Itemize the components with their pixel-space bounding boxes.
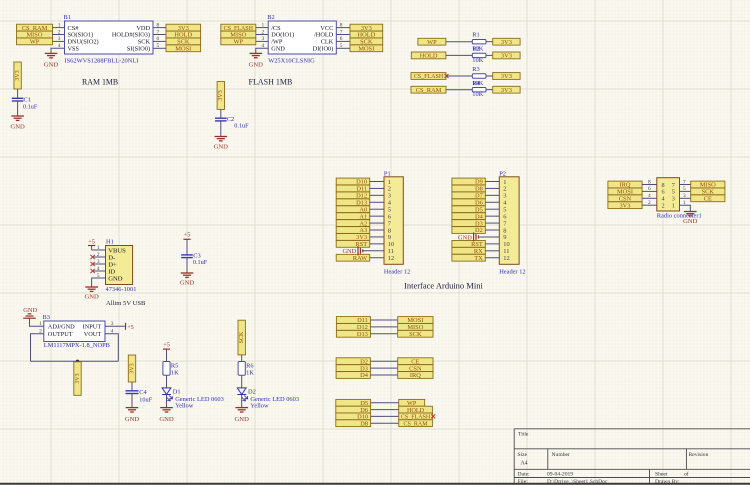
- port D9: [452, 178, 485, 185]
- wire: [363, 250, 384, 252]
- wire: [371, 409, 399, 411]
- wire: [241, 395, 243, 408]
- wire: [485, 194, 499, 196]
- wire: [370, 243, 384, 245]
- wire: [166, 375, 168, 388]
- port CSN: [608, 195, 642, 202]
- no-ERC marker: [431, 414, 435, 418]
- svg-text:GND: GND: [180, 280, 195, 287]
- wire: [485, 229, 499, 231]
- wire: [131, 394, 133, 408]
- port MOSI: [166, 45, 201, 52]
- svg-text:R5: R5: [171, 362, 178, 369]
- svg-text:B1: B1: [64, 14, 71, 21]
- svg-text:C2: C2: [227, 116, 234, 123]
- port D10: [336, 178, 370, 185]
- svg-text:4: 4: [58, 43, 61, 49]
- port MISO: [17, 31, 53, 38]
- wire: [446, 89, 472, 91]
- port D5: [452, 206, 485, 213]
- wire: [256, 34, 268, 36]
- wire: [642, 184, 657, 186]
- wire: [51, 48, 65, 53]
- svg-text:D4: D4: [360, 372, 369, 379]
- wire: [485, 222, 499, 224]
- ground: [684, 211, 697, 213]
- svg-text:CS_FLASH: CS_FLASH: [414, 74, 444, 80]
- port CS_FLASH: [411, 73, 446, 80]
- svg-text:GND: GND: [458, 234, 472, 241]
- port MOSI: [608, 188, 642, 195]
- svg-text:3: 3: [58, 36, 61, 42]
- power +5: [163, 348, 170, 350]
- connector Radio connecter1: [648, 178, 702, 220]
- svg-text:LM1117MPX-1.8_NOPB: LM1117MPX-1.8_NOPB: [44, 342, 110, 349]
- no-connect pin 2: [94, 256, 106, 258]
- wire: [370, 333, 397, 335]
- capacitor C4: [126, 389, 153, 403]
- port HOLD: [411, 52, 446, 59]
- title block: [514, 429, 750, 485]
- wire: [256, 40, 268, 42]
- port MOSI: [398, 317, 433, 324]
- ground: [215, 136, 228, 138]
- wire: [370, 194, 384, 196]
- wire: [256, 27, 268, 29]
- wire: [370, 187, 384, 189]
- wire: [105, 334, 118, 362]
- svg-text:12: 12: [388, 255, 395, 262]
- svg-text:HOLD: HOLD: [420, 53, 438, 60]
- svg-text:GND: GND: [84, 293, 99, 300]
- wire: [220, 109, 222, 118]
- port SCK: [166, 38, 201, 45]
- wire: [485, 187, 499, 189]
- port CE: [398, 358, 433, 365]
- wire: [446, 54, 472, 56]
- power port 3V3: [128, 355, 135, 382]
- wire: [370, 326, 397, 328]
- svg-text:IS62WVS1288FBLL-20NLI: IS62WVS1288FBLL-20NLI: [65, 58, 139, 65]
- resistor R6 1K: [238, 362, 254, 377]
- svg-text:1: 1: [261, 22, 264, 28]
- power port GND: [23, 307, 37, 318]
- power +5: [183, 238, 190, 240]
- svg-text:VOUT: VOUT: [84, 331, 102, 338]
- svg-text:TX: TX: [474, 255, 483, 262]
- svg-text:GND: GND: [683, 218, 698, 225]
- wire: [370, 374, 397, 376]
- svg-text:GND: GND: [159, 416, 174, 423]
- ground: [85, 286, 98, 288]
- svg-text:CS_RAM: CS_RAM: [416, 87, 442, 94]
- connector P2 Header 12: [499, 170, 525, 275]
- svg-text:0.1uF: 0.1uF: [23, 103, 38, 110]
- wire: [485, 250, 499, 252]
- wire: [642, 204, 657, 206]
- svg-text:1: 1: [97, 245, 100, 251]
- wire: [131, 382, 133, 391]
- ground: [45, 52, 58, 54]
- port D12: [336, 192, 370, 199]
- svg-text:D+: D+: [108, 261, 117, 268]
- svg-text:12: 12: [503, 255, 510, 262]
- svg-text:ID: ID: [108, 268, 115, 275]
- svg-text:GND: GND: [235, 416, 250, 423]
- ground: [250, 52, 263, 54]
- svg-text:4: 4: [97, 266, 100, 272]
- svg-text:CS_RAM: CS_RAM: [404, 421, 429, 427]
- junction: [76, 360, 79, 363]
- svg-text:GND: GND: [249, 62, 264, 69]
- wire: [485, 243, 499, 245]
- power port GND: [458, 232, 478, 241]
- wire: [486, 75, 493, 77]
- ground: [11, 115, 24, 117]
- port WP: [221, 38, 256, 45]
- wire: [680, 197, 691, 199]
- ground: [160, 407, 173, 409]
- wire: [642, 197, 657, 199]
- port D3: [452, 220, 485, 227]
- no-connect pin 4: [94, 270, 106, 272]
- svg-text:3V3: 3V3: [619, 202, 630, 209]
- svg-text:D2: D2: [475, 227, 483, 234]
- svg-text:09-04-2019: 09-04-2019: [547, 472, 573, 478]
- svg-text:3: 3: [261, 36, 264, 42]
- power port GND: [342, 246, 362, 255]
- wire: [446, 75, 472, 77]
- svg-text:1: 1: [58, 22, 61, 28]
- wire: [642, 190, 657, 192]
- power +5: [88, 245, 95, 247]
- wire: [105, 325, 125, 327]
- svg-text:2: 2: [261, 29, 264, 35]
- svg-text:GND: GND: [271, 46, 285, 53]
- port D13: [336, 330, 370, 337]
- svg-text:2: 2: [97, 252, 100, 258]
- svg-text:6: 6: [648, 186, 651, 192]
- wire: [166, 395, 168, 408]
- wire: [336, 40, 350, 42]
- svg-text:3V3: 3V3: [501, 87, 512, 94]
- port SCK: [350, 38, 383, 45]
- port 3V3: [166, 24, 201, 31]
- port HOLD: [166, 31, 201, 38]
- svg-text:1K: 1K: [171, 370, 179, 377]
- sheet border: [0, 483, 750, 485]
- wire: [486, 41, 493, 43]
- ic B1 IS62WVS1288FBLL-20NLI: [58, 14, 160, 64]
- svg-text:5: 5: [97, 273, 100, 279]
- svg-text:RAW: RAW: [353, 255, 368, 262]
- svg-text:3: 3: [97, 259, 100, 265]
- wire: [336, 47, 350, 49]
- svg-text:+5: +5: [127, 324, 134, 331]
- ground: [181, 272, 194, 274]
- svg-text:Header 12: Header 12: [384, 268, 410, 275]
- svg-text:R6: R6: [246, 362, 253, 369]
- svg-text:H1: H1: [106, 238, 114, 245]
- port MISO: [691, 181, 725, 188]
- svg-text:R1: R1: [472, 32, 479, 39]
- port CSN: [398, 365, 433, 372]
- svg-text:10uF: 10uF: [139, 396, 152, 403]
- svg-text:MOSI: MOSI: [358, 46, 374, 53]
- port D10: [336, 413, 371, 420]
- svg-text:VSS: VSS: [68, 46, 80, 53]
- svg-text:D2: D2: [248, 388, 256, 395]
- svg-text:MOSI: MOSI: [175, 46, 191, 53]
- wire: [371, 402, 399, 404]
- wire: [241, 355, 243, 362]
- svg-text:OUTPUT: OUTPUT: [48, 331, 73, 338]
- svg-text:W25X10CLSNIG: W25X10CLSNIG: [268, 58, 315, 65]
- port SCK: [398, 330, 433, 337]
- capacitor C2: [215, 116, 249, 130]
- svg-text:4: 4: [648, 193, 651, 199]
- port D7: [452, 192, 485, 199]
- svg-text:1: 1: [39, 321, 42, 327]
- port MOSI: [350, 45, 383, 52]
- port RX: [452, 247, 485, 254]
- wire: [485, 208, 499, 210]
- wire: [241, 375, 243, 388]
- port D2: [452, 227, 485, 234]
- svg-text:VBUS: VBUS: [108, 247, 126, 254]
- svg-text:+5: +5: [163, 341, 170, 348]
- ground: [126, 407, 139, 409]
- svg-text:+5: +5: [88, 238, 95, 245]
- svg-text:4: 4: [261, 43, 264, 49]
- svg-text:D8: D8: [360, 420, 368, 427]
- wire: [336, 34, 350, 36]
- wire: [256, 48, 268, 53]
- svg-text:Allim 5V USB: Allim 5V USB: [106, 300, 146, 307]
- svg-text:Date:: Date:: [518, 472, 531, 478]
- wire: [186, 258, 188, 273]
- no-connect pin 3: [94, 263, 106, 265]
- svg-text:Yellow: Yellow: [175, 402, 194, 409]
- connector H1 47346-1001: [97, 238, 137, 293]
- wire: [31, 334, 44, 362]
- svg-text:SCK: SCK: [239, 331, 245, 343]
- svg-text:Size: Size: [518, 452, 528, 458]
- port CE: [691, 195, 725, 202]
- resistor R3 10K: [472, 66, 486, 87]
- wire: [370, 257, 384, 259]
- wire: [485, 181, 499, 183]
- svg-text:0.1uF: 0.1uF: [193, 259, 208, 266]
- port CS_RAM: [17, 24, 53, 31]
- port D11: [336, 185, 370, 192]
- port 3V3: [493, 86, 520, 93]
- port RAW: [336, 254, 370, 261]
- svg-text:GND: GND: [10, 123, 25, 130]
- wire: [153, 40, 166, 42]
- svg-text:B2: B2: [267, 14, 274, 21]
- port A0: [336, 206, 370, 213]
- port D6: [452, 199, 485, 206]
- port 3V3: [493, 38, 520, 45]
- svg-text:B3: B3: [43, 314, 50, 321]
- port D13: [336, 199, 370, 206]
- svg-text:R2: R2: [472, 46, 479, 53]
- wire: [485, 257, 499, 259]
- wire: [371, 415, 399, 417]
- wire: [680, 184, 691, 186]
- svg-text:D1: D1: [173, 388, 181, 395]
- svg-text:GND: GND: [23, 307, 37, 314]
- svg-text:DI(IO0): DI(IO0): [313, 46, 334, 53]
- port WP: [399, 399, 425, 406]
- wire: [370, 215, 384, 217]
- port D8: [336, 420, 371, 427]
- svg-text:10K: 10K: [472, 57, 483, 64]
- svg-text:GND: GND: [214, 144, 229, 151]
- svg-text:ADJ/GND: ADJ/GND: [48, 324, 75, 331]
- svg-text:GND: GND: [125, 416, 140, 423]
- svg-text:R4: R4: [472, 80, 480, 87]
- svg-text:FLASH 1MB: FLASH 1MB: [249, 78, 293, 87]
- svg-text:3V3: 3V3: [75, 373, 81, 383]
- svg-text:2: 2: [58, 29, 61, 35]
- wire: [153, 27, 166, 29]
- resistor R4 10K: [472, 80, 486, 98]
- wire: [371, 422, 399, 424]
- wire: [370, 222, 384, 224]
- svg-text:WP: WP: [427, 39, 437, 46]
- svg-text:3V3: 3V3: [129, 363, 135, 373]
- power port 3V3: [74, 362, 81, 396]
- svg-text:8: 8: [648, 179, 651, 185]
- port TX: [452, 254, 485, 261]
- power port SCK: [238, 320, 245, 355]
- port 3V3: [350, 24, 383, 31]
- svg-text:C1: C1: [24, 96, 31, 103]
- led D2 Generic LED 0603 Yellow: [237, 388, 299, 410]
- wire: [486, 54, 493, 56]
- port 3V3: [608, 202, 642, 209]
- svg-text:Revision: Revision: [689, 452, 709, 458]
- svg-text:Number: Number: [552, 452, 570, 458]
- svg-text:R3: R3: [472, 66, 479, 73]
- svg-text:RAM 1MB: RAM 1MB: [82, 78, 118, 87]
- port D12: [336, 324, 370, 331]
- wire: [17, 89, 19, 98]
- port D5: [336, 399, 371, 406]
- wire: [91, 246, 93, 251]
- wire: [153, 47, 166, 49]
- wire: [220, 121, 222, 137]
- svg-text:D13: D13: [357, 331, 368, 338]
- svg-text:GND: GND: [44, 62, 59, 69]
- svg-text:3V3: 3V3: [501, 53, 512, 60]
- port D6: [336, 406, 371, 413]
- port 3V3: [336, 234, 370, 241]
- wire: [370, 360, 397, 362]
- wire: [92, 278, 106, 287]
- resistor R1 10K: [472, 32, 486, 53]
- port HOLD: [399, 406, 433, 413]
- svg-text:INPUT: INPUT: [83, 324, 102, 331]
- port 3V3: [493, 73, 520, 80]
- connector P1 Header 12: [384, 170, 410, 275]
- port D11: [336, 317, 370, 324]
- svg-text:Interface Arduino Mini: Interface Arduino Mini: [404, 281, 483, 291]
- ic B3 LM1117MPX-1.8_NOPB: [39, 314, 114, 349]
- port IRQ: [398, 372, 433, 379]
- wire: [446, 41, 472, 43]
- resistor R2 10K: [472, 46, 486, 64]
- wire: [478, 236, 499, 238]
- port A2: [336, 220, 370, 227]
- capacitor C1: [12, 96, 38, 110]
- port D4: [336, 372, 370, 379]
- wire: [370, 229, 384, 231]
- wire: [680, 190, 691, 192]
- svg-text:10K: 10K: [472, 91, 483, 98]
- svg-text:SI(SIO0): SI(SIO0): [127, 46, 150, 53]
- port D3: [336, 365, 370, 372]
- svg-text:C4: C4: [139, 389, 147, 396]
- wire: [680, 205, 691, 211]
- svg-text:1: 1: [672, 203, 675, 210]
- wire: [186, 239, 188, 255]
- wire: [370, 201, 384, 203]
- power port 3V3: [217, 82, 224, 110]
- svg-text:Sheet: Sheet: [655, 472, 668, 478]
- port MISO: [221, 31, 256, 38]
- wire: [53, 34, 65, 36]
- wire: [92, 249, 106, 251]
- port WP: [418, 38, 446, 45]
- wire: [153, 34, 166, 36]
- wire: [370, 208, 384, 210]
- svg-text:GND: GND: [108, 275, 123, 282]
- wire: [17, 101, 19, 116]
- svg-text:Yellow: Yellow: [250, 402, 269, 409]
- svg-text:2: 2: [648, 200, 651, 206]
- wire: [30, 318, 44, 326]
- svg-text:of: of: [684, 471, 689, 478]
- wire: [486, 89, 493, 91]
- led D1 Generic LED 0603 Yellow: [162, 388, 224, 410]
- svg-text:SCK: SCK: [409, 331, 422, 338]
- svg-text:3V3: 3V3: [501, 39, 512, 46]
- port CS_FLASH: [221, 24, 256, 31]
- wire: [336, 27, 350, 29]
- port WP: [17, 38, 53, 45]
- port SCK: [691, 188, 725, 195]
- svg-text:D-: D-: [108, 254, 115, 261]
- svg-text:Header 12: Header 12: [499, 268, 525, 275]
- svg-text:WP: WP: [30, 39, 40, 46]
- wire: [53, 27, 65, 29]
- svg-text:WP: WP: [234, 39, 244, 46]
- port IRQ: [608, 181, 642, 188]
- svg-text:2: 2: [661, 203, 664, 210]
- svg-text:CE: CE: [704, 196, 712, 203]
- svg-text:Title: Title: [518, 432, 529, 438]
- wire: [370, 236, 384, 238]
- port A3: [336, 227, 370, 234]
- svg-text:RST: RST: [355, 241, 367, 248]
- svg-text:47346-1001: 47346-1001: [106, 286, 137, 293]
- wire: [485, 215, 499, 217]
- port A1: [336, 213, 370, 220]
- port HOLD: [350, 31, 383, 38]
